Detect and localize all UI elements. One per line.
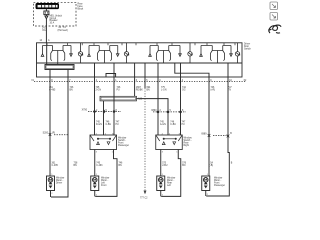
- svg-text:24 : X1: 24 : X1: [59, 27, 67, 29]
- svg-text:745: 745: [96, 163, 101, 165]
- svg-text:8: 8: [116, 110, 118, 112]
- svg-text:BN: BN: [147, 90, 151, 92]
- svg-text:1667: 1667: [136, 87, 142, 89]
- svg-text:746: 746: [70, 87, 75, 89]
- svg-text:C-485: C-485: [49, 90, 56, 92]
- svg-text:746: 746: [106, 122, 111, 124]
- svg-text:747: 747: [182, 122, 187, 124]
- svg-text:775: 775: [161, 87, 166, 89]
- svg-text:361: 361: [52, 163, 57, 165]
- svg-text:(+R): (+R): [211, 90, 216, 92]
- svg-text:747: 747: [116, 122, 121, 124]
- svg-text:Right: Right: [184, 144, 190, 147]
- svg-text:361: 361: [49, 87, 54, 89]
- svg-text:D-GN: D-GN: [96, 124, 102, 126]
- svg-text:C-BU: C-BU: [106, 124, 112, 126]
- svg-text:745: 745: [96, 122, 101, 124]
- svg-text:PU: PU: [182, 124, 186, 126]
- svg-text:(P): (P): [52, 133, 55, 135]
- svg-text:Block: Block: [78, 8, 84, 10]
- svg-text:X889: X889: [201, 133, 207, 135]
- svg-text:PU: PU: [116, 124, 120, 126]
- svg-text:L-GN: L-GN: [161, 90, 167, 92]
- svg-text:X2: X2: [244, 80, 248, 82]
- svg-text:(Hot feed): (Hot feed): [58, 29, 68, 32]
- svg-text:5: 5: [106, 110, 108, 112]
- svg-text:4: 4: [182, 80, 184, 82]
- svg-text:575: 575: [162, 163, 167, 165]
- svg-text:8: 8: [51, 80, 53, 82]
- svg-text:OG: OG: [42, 30, 46, 32]
- svg-text:BN: BN: [119, 165, 123, 167]
- svg-text:2-GN: 2-GN: [96, 90, 102, 92]
- svg-text:746: 746: [117, 87, 122, 89]
- svg-text:RD/BK: RD/BK: [136, 90, 143, 92]
- svg-text:Passenger: Passenger: [214, 184, 225, 187]
- svg-text:A22: A22: [138, 97, 143, 100]
- svg-text:(-B): (-B): [209, 165, 213, 167]
- svg-text:B: B: [231, 163, 233, 165]
- svg-text:2-BU: 2-BU: [162, 165, 168, 167]
- svg-text:C-463: C-463: [96, 165, 103, 167]
- svg-text:745: 745: [160, 122, 165, 124]
- svg-text:Front: Front: [101, 184, 107, 187]
- svg-text:X790: X790: [82, 110, 88, 112]
- svg-text:141: 141: [42, 28, 47, 30]
- svg-text:746: 746: [119, 163, 124, 165]
- svg-text:BN: BN: [70, 90, 74, 92]
- svg-text:3: 3: [96, 152, 98, 154]
- svg-text:7: 7: [69, 80, 71, 82]
- svg-text:746: 746: [170, 122, 175, 124]
- svg-text:C-485: C-485: [52, 165, 59, 167]
- svg-text:745: 745: [96, 87, 101, 89]
- svg-text:576: 576: [182, 163, 187, 165]
- svg-text:5A: 5A: [210, 162, 213, 165]
- svg-text:Driver: Driver: [56, 182, 62, 185]
- svg-text:746: 746: [211, 87, 216, 89]
- svg-text:Switch: Switch: [244, 48, 251, 51]
- svg-text:TN: TN: [228, 90, 231, 92]
- svg-text:2: 2: [96, 110, 98, 112]
- svg-text:738: 738: [74, 163, 79, 165]
- svg-text:B: B: [230, 133, 232, 135]
- svg-text:744: 744: [182, 87, 187, 89]
- svg-text:A-GN: A-GN: [160, 123, 166, 126]
- svg-text:S200: S200: [43, 133, 49, 135]
- svg-text:BN: BN: [74, 165, 78, 167]
- svg-text:OG: OG: [182, 90, 186, 92]
- svg-text:A: A: [48, 39, 50, 42]
- svg-text:Passenger: Passenger: [118, 144, 129, 147]
- svg-text:3: 3: [159, 80, 161, 82]
- svg-text:5: 5: [146, 80, 148, 82]
- svg-text:X890: X890: [151, 110, 157, 112]
- svg-text:694: 694: [147, 87, 152, 89]
- svg-text:777 C2: 777 C2: [140, 198, 148, 200]
- svg-text:PU: PU: [117, 90, 121, 92]
- svg-text:2: 2: [51, 193, 53, 195]
- svg-text:747: 747: [228, 87, 233, 89]
- svg-text:10 A: 10 A: [50, 22, 55, 25]
- svg-text:C-BU: C-BU: [170, 124, 176, 126]
- svg-text:3: 3: [162, 152, 164, 154]
- svg-text:14: 14: [39, 40, 42, 42]
- svg-text:Left: Left: [167, 184, 171, 187]
- svg-text:BN: BN: [182, 165, 186, 167]
